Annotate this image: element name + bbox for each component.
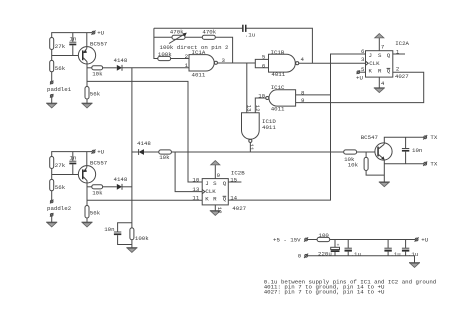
- wire tap1 stage2: [87, 186, 92, 188]
- wire IC2B S stem: [214, 165, 216, 179]
- wire D3 to mid node: [122, 186, 132, 188]
- terminal paddle1 b: [50, 94, 53, 98]
- wire 10k to base: [357, 151, 378, 153]
- svg-text:4011: 4011: [271, 71, 285, 78]
- ground stage2 emitter: [82, 222, 93, 227]
- resistor 27k stage2: [50, 157, 66, 170]
- wire 56k to ground stage1: [86, 99, 88, 103]
- svg-text:1: 1: [396, 48, 400, 55]
- wire Q1 emitter to rail: [86, 33, 88, 49]
- wire mid node vertical: [131, 68, 133, 228]
- trimmer 470k: [169, 29, 187, 44]
- wire 0 rail: [308, 256, 415, 263]
- svg-text:IC1A: IC1A: [192, 49, 206, 56]
- svg-text:220u: 220u: [318, 250, 332, 257]
- pin 15 stub IC2B Q: [228, 177, 241, 184]
- wire Q1 collector down: [86, 62, 88, 87]
- wire IC1B out to IC2A CLK: [299, 62, 366, 64]
- wire IC2A R stem: [378, 77, 380, 88]
- svg-text:14: 14: [230, 194, 237, 201]
- terminal +U at IC2A K: [356, 70, 366, 81]
- capacitor 220u: [318, 240, 340, 258]
- ground paddle1: [46, 103, 57, 108]
- wire elbow to IC2B CLK pin13: [175, 152, 202, 192]
- svg-text:56k: 56k: [55, 184, 66, 191]
- svg-text:100: 100: [319, 232, 330, 239]
- terminal +U stage2: [92, 149, 105, 156]
- svg-text:100k: 100k: [158, 51, 172, 58]
- resistor 10k BC547 base: [344, 150, 357, 163]
- svg-text:56k: 56k: [90, 90, 101, 97]
- svg-text:BC547: BC547: [361, 134, 378, 141]
- capacitor .1u c: [402, 240, 418, 258]
- flip-flop IC2A 4027: [366, 40, 410, 80]
- svg-text:3: 3: [361, 56, 365, 63]
- capacitor 10n TX: [402, 137, 422, 163]
- wire +U rail stage2: [52, 152, 92, 157]
- svg-text:27k: 27k: [55, 162, 66, 169]
- svg-text:10k: 10k: [159, 154, 170, 161]
- svg-text:13: 13: [192, 186, 199, 193]
- svg-text:4027: pin 7 to ground, pin 14: 4027: pin 7 to ground, pin 14 to +U: [264, 289, 385, 296]
- wire 470k chain: [154, 37, 233, 63]
- supply arrow IC2B S pin9: [211, 161, 221, 179]
- op-amp gate IC1C 4011: [266, 84, 296, 113]
- wire Q2 collector down: [86, 181, 88, 206]
- pin 1 stub IC2A Q: [393, 48, 405, 55]
- svg-text:4: 4: [301, 56, 305, 63]
- transistor Q1 BC557: [78, 41, 107, 64]
- ground power rail: [409, 263, 420, 268]
- wire IC1C pin8 to J net: [296, 94, 331, 96]
- terminal +U stage1: [92, 30, 105, 37]
- svg-text:4011: 4011: [192, 72, 206, 79]
- svg-text:CLK: CLK: [205, 188, 216, 195]
- svg-text:4011: 4011: [271, 105, 285, 112]
- svg-text:+5 - 15V: +5 - 15V: [273, 237, 301, 244]
- svg-text:4148: 4148: [114, 176, 128, 183]
- resistor 10k clock: [159, 150, 172, 161]
- svg-text:1n: 1n: [70, 155, 77, 162]
- op-amp gate IC1B 4011: [269, 49, 299, 78]
- svg-text:IC2A: IC2A: [395, 40, 409, 47]
- svg-text:TX: TX: [430, 134, 437, 141]
- svg-text:K: K: [205, 195, 209, 202]
- wire paddle2 to ground: [51, 216, 53, 222]
- wire IC1D out to main row: [249, 143, 251, 153]
- svg-text:11: 11: [192, 195, 199, 202]
- svg-text:CLK: CLK: [369, 60, 380, 67]
- svg-text:IC1C: IC1C: [271, 84, 285, 91]
- capacitor 1n stage1: [69, 33, 76, 56]
- capacitor .1u a: [345, 240, 361, 258]
- capacitor .1u osc: [242, 25, 255, 39]
- resistor 100k osc: [158, 51, 172, 60]
- svg-text:.1u: .1u: [390, 251, 400, 258]
- wire tap1 stage1: [87, 67, 92, 69]
- wire D1 to IC1A pin1: [122, 67, 189, 69]
- svg-text:TX: TX: [430, 161, 437, 168]
- capacitor 1n stage2: [69, 152, 76, 175]
- svg-text:R: R: [378, 68, 382, 75]
- resistor 27k stage1: [50, 38, 66, 51]
- wire +U rail power: [330, 239, 416, 241]
- diode D1 4148: [114, 57, 128, 71]
- svg-text:13: 13: [245, 105, 252, 112]
- wire base node stage2: [52, 169, 82, 180]
- svg-text:12: 12: [254, 105, 261, 112]
- wire IC1C out to IC1D pin12: [255, 98, 265, 113]
- wire IC2A Q2 return to IC1C pin9: [296, 72, 424, 102]
- svg-text:J: J: [205, 180, 208, 187]
- ground Q3 emitter: [379, 182, 390, 187]
- wire IC1A out to IC1B in: [218, 62, 256, 64]
- wire base node stage1: [52, 50, 82, 61]
- svg-text:R: R: [213, 195, 217, 202]
- svg-text:BC557: BC557: [90, 160, 107, 167]
- wire Q3 emitter down: [383, 159, 385, 181]
- svg-text:4: 4: [381, 80, 385, 87]
- transistor Q2 BC557: [78, 160, 107, 183]
- svg-text:S: S: [213, 180, 217, 187]
- svg-text:.1u: .1u: [351, 251, 361, 258]
- terminal paddle2 a: [50, 200, 53, 204]
- op-amp gate IC1A 4011: [189, 49, 217, 79]
- wire D2 to 10k: [144, 151, 159, 153]
- wire paddle1 to ground: [51, 97, 53, 103]
- terminal paddle1 a: [50, 81, 53, 85]
- svg-text:4027: 4027: [395, 73, 409, 80]
- svg-text:10n: 10n: [412, 147, 422, 154]
- resistor 10k stage2: [92, 185, 103, 197]
- svg-text:Q: Q: [223, 180, 227, 187]
- svg-text:4027: 4027: [232, 205, 246, 212]
- ground arrow IC2A R pin4: [374, 80, 385, 93]
- svg-text:Q: Q: [387, 52, 391, 59]
- svg-text:paddle1: paddle1: [47, 86, 72, 93]
- wire 100k to ground: [131, 240, 133, 248]
- svg-text:10n: 10n: [104, 226, 114, 233]
- svg-text:+U: +U: [421, 236, 428, 243]
- svg-text:100k: 100k: [135, 235, 149, 242]
- svg-text:56k: 56k: [55, 65, 66, 72]
- svg-text:56k: 56k: [90, 209, 101, 216]
- terminal TX1: [423, 134, 438, 141]
- svg-text:10: 10: [192, 176, 199, 183]
- svg-text:+U: +U: [97, 149, 104, 156]
- wire 10k to diode D1: [103, 67, 117, 69]
- supply arrow IC2A S pin7: [375, 34, 385, 51]
- svg-text:+: +: [337, 244, 340, 249]
- svg-text:IC2B: IC2B: [231, 170, 245, 177]
- svg-text:4148: 4148: [137, 140, 151, 147]
- wire 10k to diode D3: [103, 186, 117, 188]
- wire 100k to IC1A pin2: [171, 58, 189, 60]
- diode D3 4148: [114, 176, 128, 190]
- flip-flop IC2B 4027: [202, 170, 246, 212]
- transistor Q3 BC547: [361, 134, 392, 160]
- terminal 0: [298, 253, 308, 260]
- wire emitter to TX2: [384, 163, 424, 165]
- wire 56k to ground stage2: [86, 218, 88, 222]
- svg-text:.1u: .1u: [408, 251, 418, 258]
- svg-text:BC557: BC557: [90, 41, 107, 48]
- svg-text:7: 7: [381, 43, 384, 50]
- svg-text:6: 6: [361, 48, 365, 55]
- capacitor .1u b: [384, 240, 400, 258]
- wire IC1B input bar pins 5 6: [255, 59, 268, 67]
- ground arrow IC2B R pin12: [210, 207, 223, 216]
- svg-text:470k: 470k: [170, 29, 184, 36]
- ground paddle2: [46, 222, 57, 227]
- wire 56k to paddle1: [51, 72, 53, 81]
- ground memory node: [126, 248, 137, 253]
- wire J net vertical and IC2B Q14 return: [228, 54, 365, 200]
- wire IC1D pin13 vertical: [246, 63, 248, 113]
- svg-text:K: K: [369, 68, 373, 75]
- terminal +5 - 15V: [273, 237, 308, 244]
- svg-text:2: 2: [185, 53, 189, 60]
- svg-text:0: 0: [298, 253, 302, 260]
- svg-text:2: 2: [396, 65, 400, 72]
- svg-text:+U: +U: [97, 30, 104, 37]
- svg-text:9: 9: [217, 172, 221, 179]
- wire osc top rail: [154, 28, 313, 63]
- svg-text:10k: 10k: [92, 189, 103, 196]
- capacitor 10n memory: [104, 223, 132, 245]
- resistor 56k stage1 divider: [50, 60, 66, 71]
- svg-text:+U: +U: [356, 74, 363, 81]
- svg-text:470k: 470k: [202, 29, 216, 36]
- svg-text:S: S: [378, 52, 382, 59]
- svg-text:1: 1: [185, 62, 189, 69]
- svg-text:12: 12: [216, 207, 223, 214]
- wire main row to BC547 10k: [171, 151, 343, 153]
- resistor 56k stage2 emitter: [85, 206, 101, 219]
- svg-text:10k: 10k: [92, 70, 103, 77]
- svg-text:4011: 4011: [262, 124, 276, 131]
- svg-text:paddle2: paddle2: [47, 205, 72, 212]
- resistor 10k BC547 pulldown: [348, 152, 385, 175]
- wire osc left vertical: [154, 28, 158, 58]
- op-amp gate IC1D 4011: [242, 113, 277, 143]
- wire IC2A S stem: [378, 38, 380, 51]
- resistor 10k stage1: [92, 66, 103, 78]
- wire stage2 K line to IC2B pin11: [87, 199, 202, 201]
- wire supply in: [308, 239, 318, 241]
- terminal paddle2 b: [50, 213, 53, 217]
- terminal +U power: [415, 236, 429, 243]
- wire mid node to D2: [132, 151, 139, 153]
- ground stage1 emitter: [82, 103, 93, 108]
- resistor 100k memory: [130, 228, 149, 242]
- svg-text:27k: 27k: [55, 43, 66, 50]
- wire stage1 J line to IC2B pin10: [87, 81, 202, 182]
- svg-text:6: 6: [262, 63, 266, 70]
- svg-text:5: 5: [262, 54, 266, 61]
- diode D2 4148: [137, 140, 151, 155]
- terminal TX2: [423, 161, 438, 168]
- svg-text:4148: 4148: [114, 57, 128, 64]
- svg-text:11: 11: [248, 144, 255, 151]
- wire IC2B R stem: [214, 205, 216, 211]
- svg-text:10k: 10k: [348, 162, 359, 169]
- wire Q2 emitter to rail: [86, 152, 88, 168]
- resistor 56k stage1 emitter: [85, 87, 101, 100]
- wire +U rail stage1: [52, 33, 92, 38]
- wire 56k to paddle2: [51, 191, 53, 200]
- resistor 470k: [202, 29, 216, 40]
- svg-text:IC1B: IC1B: [271, 49, 285, 56]
- svg-text:15: 15: [230, 177, 237, 184]
- resistor 56k stage2 divider: [50, 179, 66, 190]
- resistor 100: [317, 232, 330, 242]
- svg-text:.1u: .1u: [245, 32, 255, 39]
- svg-text:1n: 1n: [70, 36, 77, 43]
- svg-text:J: J: [369, 52, 372, 59]
- wire Q3 collector to TX1: [384, 137, 424, 144]
